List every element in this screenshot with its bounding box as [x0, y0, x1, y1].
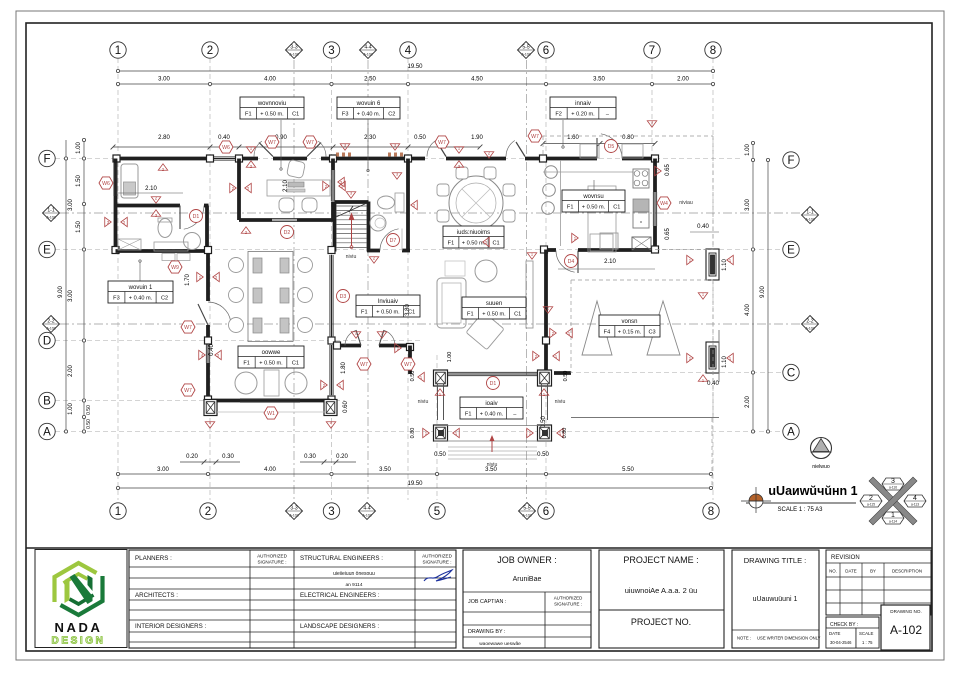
- svg-text:2.00: 2.00: [745, 396, 751, 408]
- column post: [328, 337, 335, 344]
- grid bubble F right: [783, 152, 799, 168]
- svg-text:3.50: 3.50: [379, 467, 391, 473]
- svg-text:F3: F3: [342, 112, 349, 118]
- window W1 south: [240, 398, 300, 400]
- svg-text:A-103: A-103: [289, 514, 298, 518]
- svg-text:0.30: 0.30: [304, 454, 316, 460]
- svg-text:BY: BY: [870, 569, 876, 574]
- svg-text:REVISION: REVISION: [831, 555, 860, 561]
- svg-text:W7: W7: [438, 140, 446, 146]
- bath6 south wall right: [402, 249, 410, 253]
- svg-text:uUaиwŭчŭнn 1: uUaиwŭчŭнn 1: [768, 484, 857, 498]
- svg-text:F2: F2: [555, 112, 562, 118]
- vanity below wall: [162, 254, 175, 261]
- bathtub bath1: [121, 164, 138, 198]
- grid bubble 4 top: [400, 42, 416, 58]
- marker top bath6 l: [340, 144, 350, 151]
- check by box: [826, 617, 879, 648]
- door label D1: [190, 210, 203, 223]
- svg-text:W6: W6: [102, 181, 110, 187]
- svg-text:an 9114: an 9114: [346, 582, 363, 588]
- door label D4: [565, 255, 578, 268]
- kitchen closet X: [632, 237, 651, 250]
- marker under Bcol l: [205, 422, 215, 429]
- wall dining top left: [408, 157, 425, 161]
- NADA logo emblem: [55, 563, 103, 615]
- svg-text:3.00: 3.00: [745, 199, 751, 211]
- svg-text:D1: D1: [193, 214, 200, 220]
- logo box: [35, 550, 127, 648]
- drawing title box: [732, 550, 819, 648]
- wall bath1 east: [205, 206, 209, 252]
- svg-text:2: 2: [869, 495, 873, 502]
- wall office top left: [239, 157, 258, 161]
- terrace boundary dashed: [655, 135, 713, 137]
- svg-text:4: 4: [405, 45, 412, 57]
- svg-text:2.50: 2.50: [364, 77, 376, 83]
- marker bath1 top wall: [158, 164, 168, 171]
- column post: [207, 155, 214, 162]
- svg-text:+ 0.50 m.: + 0.50 m.: [482, 312, 506, 318]
- leader lines: [280, 120, 282, 168]
- title block top line: [26, 547, 932, 549]
- hall armchairs pair: [235, 372, 257, 394]
- svg-text:4-4: 4-4: [363, 506, 370, 512]
- svg-text:3.50: 3.50: [593, 77, 605, 83]
- dimension line 19.50 top: [118, 70, 713, 72]
- wall bath6 top: [352, 157, 408, 161]
- column post: [328, 396, 335, 403]
- kitchen south wall left: [543, 248, 556, 252]
- svg-text:D: D: [43, 336, 51, 348]
- svg-text:DESIGN: DESIGN: [52, 636, 106, 647]
- keyplan flag 4: [904, 495, 926, 507]
- marker dining s: [483, 237, 490, 247]
- marker bath6 door: [369, 257, 379, 264]
- exterior wall F row bath1 top: [114, 157, 211, 161]
- section marker 4-4 top: [360, 42, 377, 59]
- svg-text:6: 6: [543, 506, 549, 518]
- column post: [205, 247, 212, 254]
- column post: [652, 155, 659, 162]
- marker bath1 2: [151, 197, 161, 204]
- window label W7 a: [265, 136, 279, 148]
- column grid8 C: [706, 342, 719, 373]
- svg-text:F3: F3: [113, 296, 120, 302]
- svg-text:A-103: A-103: [363, 53, 372, 57]
- living armchair: [475, 260, 497, 282]
- marker west pair l: [105, 217, 112, 227]
- window W6 west: [113, 163, 115, 196]
- svg-text:CHECK BY :: CHECK BY :: [830, 622, 858, 628]
- svg-text:0.50: 0.50: [414, 135, 426, 141]
- marker office sw: [241, 227, 251, 234]
- svg-text:2: 2: [205, 506, 211, 518]
- stair west wall: [333, 202, 337, 252]
- svg-text:W6: W6: [222, 145, 230, 151]
- carport marker triangle 2: [647, 301, 680, 355]
- room label office2: [238, 346, 304, 368]
- room label terrace: [460, 397, 523, 419]
- svg-text:0.20: 0.20: [186, 454, 198, 460]
- window label W7 g: [357, 358, 371, 370]
- marker top bath6 r: [390, 144, 400, 151]
- bath6 toilet: [378, 196, 395, 209]
- door label D5: [605, 140, 618, 153]
- svg-text:4-4: 4-4: [364, 45, 371, 51]
- entry porch column left: [434, 370, 448, 386]
- svg-text:DATE: DATE: [845, 569, 856, 574]
- door label D3: [337, 290, 350, 303]
- svg-text:C2: C2: [388, 112, 395, 118]
- svg-text:A-103: A-103: [289, 53, 298, 57]
- marker kitchen sw: [527, 253, 537, 260]
- section marker 1-1 left: [43, 205, 60, 222]
- north arrow symbol: [811, 438, 832, 459]
- marker walkway n: [647, 121, 657, 128]
- svg-text:5-5: 5-5: [522, 45, 529, 51]
- entry beam lines: [434, 425, 551, 427]
- marker dining top2: [484, 152, 494, 159]
- svg-text:NOTE :: NOTE :: [737, 636, 751, 641]
- svg-text:F4: F4: [604, 330, 611, 336]
- svg-text:0.40: 0.40: [697, 224, 709, 230]
- svg-text:0.30: 0.30: [222, 454, 234, 460]
- office south wall: [239, 218, 333, 222]
- stair east wall: [367, 202, 371, 252]
- upper small dims: [113, 146, 480, 148]
- svg-text:ELECTRICAL ENGINEERS :: ELECTRICAL ENGINEERS :: [300, 592, 380, 599]
- svg-text:8: 8: [710, 45, 716, 57]
- office desk: [267, 180, 330, 196]
- carport marker triangle 1: [582, 301, 612, 355]
- living south wall right: [379, 344, 413, 348]
- svg-text:5-5: 5-5: [523, 506, 530, 512]
- svg-text:uieiieiuun önesouu: uieiieiuun önesouu: [333, 571, 375, 577]
- svg-text:A-103: A-103: [522, 514, 531, 518]
- section cut lines horizontal: [60, 212, 800, 214]
- svg-text:+ 0.40 m.: + 0.40 m.: [357, 112, 381, 118]
- office chair: [287, 160, 306, 179]
- room label carport: [599, 315, 660, 337]
- kitchen island: [588, 186, 616, 252]
- svg-text:D3: D3: [340, 294, 347, 300]
- grid bubble 2 bottom: [200, 503, 216, 519]
- marker entry col l: [418, 372, 425, 382]
- column post: [652, 246, 659, 253]
- svg-text:F1: F1: [245, 112, 252, 118]
- porch column B right: [324, 400, 337, 416]
- svg-text:W7: W7: [184, 325, 192, 331]
- window label W7 c: [435, 136, 449, 148]
- svg-text:2.10: 2.10: [283, 180, 289, 192]
- living sofa: [437, 278, 466, 328]
- door leaf top 3: [437, 142, 446, 157]
- entry porch column right: [538, 370, 552, 386]
- marker living s pair: [395, 343, 402, 353]
- svg-text:1.80: 1.80: [341, 362, 347, 374]
- svg-text:oowwe: oowwe: [262, 350, 281, 356]
- svg-text:3-3: 3-3: [290, 45, 297, 51]
- window office east: [330, 170, 332, 201]
- bath6 sink: [370, 215, 386, 231]
- svg-text:iuds:niuoims: iuds:niuoims: [457, 230, 490, 236]
- marker entry col r2: [533, 351, 540, 361]
- svg-text:0.50: 0.50: [86, 419, 92, 429]
- svg-text:1.70: 1.70: [185, 274, 191, 286]
- kitchen east wall upper: [653, 159, 657, 193]
- svg-text:W7: W7: [531, 134, 539, 140]
- svg-text:+ 0.40 m.: + 0.40 m.: [480, 412, 504, 418]
- svg-text:+ 0.50 m.: + 0.50 m.: [376, 310, 400, 316]
- svg-text:AUTHORIZED: AUTHORIZED: [554, 596, 583, 601]
- marker bath6 east: [411, 200, 418, 210]
- svg-text:F1: F1: [448, 241, 455, 247]
- svg-text:1-1: 1-1: [47, 208, 54, 214]
- grid bubble B left: [39, 392, 55, 408]
- column post: [236, 155, 243, 162]
- column post: [334, 342, 341, 349]
- svg-text:0.50: 0.50: [410, 371, 416, 382]
- entry door band D1: [448, 371, 537, 373]
- laundry counters: [580, 144, 599, 158]
- svg-text:+ 0.50 m.: + 0.50 m.: [259, 361, 283, 367]
- svg-text:19.50: 19.50: [407, 481, 423, 487]
- svg-text:1: 1: [115, 45, 121, 57]
- svg-text:niviu: niviu: [418, 399, 429, 405]
- svg-text:niviu: niviu: [555, 399, 566, 405]
- grid bubble 3 top: [323, 42, 339, 58]
- svg-text:D1: D1: [490, 381, 497, 387]
- window label W7 b: [303, 136, 317, 148]
- grid bubble 6 top: [538, 42, 554, 58]
- window hall west: [205, 344, 207, 363]
- column post: [541, 246, 548, 253]
- title bullet circle: [755, 486, 757, 488]
- svg-text:A: A: [787, 427, 795, 439]
- door leaf top 2: [307, 143, 321, 157]
- svg-text:STRUCTURAL ENGINEERS :: STRUCTURAL ENGINEERS :: [300, 555, 383, 562]
- svg-text:JOB CAPTIAN :: JOB CAPTIAN :: [468, 599, 506, 605]
- svg-text:2.80: 2.80: [158, 135, 170, 141]
- kitchen sink: [633, 212, 649, 228]
- svg-text:a-115: a-115: [867, 503, 875, 507]
- svg-text:F1: F1: [243, 361, 250, 367]
- svg-text:0.65: 0.65: [665, 228, 671, 240]
- svg-text:C: C: [787, 368, 795, 380]
- office east wall lower: [331, 202, 335, 221]
- living east wall: [544, 250, 548, 375]
- svg-text:A-103: A-103: [362, 514, 371, 518]
- signature squiggle: [424, 570, 452, 581]
- marker top dining: [454, 147, 464, 154]
- svg-text:C1: C1: [292, 361, 299, 367]
- south wall B row: [211, 399, 330, 403]
- dimension line segments top: [118, 83, 713, 85]
- svg-text:8: 8: [708, 506, 714, 518]
- stair break line: [336, 203, 367, 217]
- room label bath6: [337, 97, 400, 119]
- wall bath1 mid right: [204, 204, 209, 208]
- door D7 arc: [380, 250, 402, 252]
- column post: [405, 155, 412, 162]
- svg-text:1.10: 1.10: [722, 356, 728, 368]
- svg-text:4.00: 4.00: [264, 467, 276, 473]
- window W4 east: [652, 192, 654, 226]
- svg-text:ARCHITECTS :: ARCHITECTS :: [135, 592, 178, 599]
- svg-text:vonsn: vonsn: [621, 319, 637, 325]
- svg-text:LANDSCAPE DESIGNERS :: LANDSCAPE DESIGNERS :: [300, 623, 379, 630]
- section marker 2-2 left: [43, 316, 60, 333]
- grid bubble 7 top: [644, 42, 660, 58]
- door label D1 entry: [487, 377, 500, 390]
- svg-text:3.80: 3.80: [405, 304, 411, 316]
- svg-text:PROJECT NO.: PROJECT NO.: [631, 617, 691, 627]
- svg-text:W4: W4: [660, 201, 668, 207]
- svg-text:A-103: A-103: [46, 216, 55, 220]
- svg-text:3.00: 3.00: [157, 467, 169, 473]
- svg-text:F1: F1: [361, 310, 368, 316]
- hall west wall lower: [206, 363, 210, 401]
- svg-text:W7: W7: [184, 388, 192, 394]
- svg-text:suuen: suuen: [486, 301, 502, 307]
- entry step column right: [538, 425, 552, 441]
- living tv cabinet: [526, 261, 533, 328]
- svg-text:2-2: 2-2: [47, 319, 54, 325]
- marker office west pair: [230, 183, 237, 193]
- marker office east win: [338, 177, 345, 187]
- svg-text:C1: C1: [514, 312, 521, 318]
- svg-text:wovnnoviu: wovnnoviu: [257, 101, 286, 107]
- sink round bath1: [184, 233, 201, 250]
- svg-text:F: F: [787, 155, 794, 167]
- section marker 5-5 bottom: [519, 503, 536, 520]
- svg-text:5.50: 5.50: [622, 467, 634, 473]
- svg-text:niviau: niviau: [679, 200, 693, 206]
- grid bubble D left: [39, 332, 55, 348]
- kitchen stools: [545, 166, 558, 179]
- window label W6 top: [219, 141, 233, 153]
- window hall east 1.80: [329, 345, 331, 395]
- porch slab edge: [217, 411, 325, 413]
- entry arrow: [491, 436, 493, 452]
- door D2 sliding band: [272, 219, 297, 221]
- svg-text:0.50: 0.50: [563, 371, 569, 382]
- svg-text:2-2: 2-2: [806, 319, 813, 325]
- svg-text:2: 2: [207, 45, 213, 57]
- wall dining top mid: [446, 157, 506, 161]
- column post: [543, 337, 550, 344]
- dining table: [449, 176, 503, 230]
- toilet bath1: [158, 219, 172, 238]
- svg-text:0.50: 0.50: [86, 405, 92, 415]
- svg-text:NADA: NADA: [55, 620, 103, 635]
- kitchen stool counter band: [560, 160, 562, 246]
- svg-text:waoewawe ueswãe: waoewawe ueswãe: [479, 641, 521, 647]
- svg-text:1.10: 1.10: [722, 259, 728, 271]
- column post: [540, 155, 547, 162]
- svg-text:A: A: [43, 427, 51, 439]
- hall chairs: [229, 258, 313, 333]
- svg-text:a-114: a-114: [889, 520, 897, 524]
- svg-text:+ 0.50 m.: + 0.50 m.: [260, 112, 284, 118]
- svg-text:0.20: 0.20: [336, 454, 348, 460]
- hall west wall mid: [206, 325, 210, 344]
- left dim lines: [65, 140, 67, 432]
- vanity counter bath1: [154, 242, 188, 251]
- svg-text:PROJECT NAME :: PROJECT NAME :: [623, 555, 698, 565]
- svg-text:D5: D5: [608, 144, 615, 150]
- svg-text:4.50: 4.50: [471, 77, 483, 83]
- svg-text:2.10: 2.10: [604, 259, 616, 265]
- svg-text:3.00: 3.00: [68, 199, 74, 211]
- kitchen east wall lower: [653, 226, 657, 250]
- svg-text:wovnsu: wovnsu: [582, 194, 603, 200]
- keyplan X bars: [860, 477, 926, 525]
- marker step col r: [527, 428, 534, 438]
- grid bubble 1 top: [110, 42, 126, 58]
- room label laundry: [550, 97, 616, 119]
- marker hall east low: [321, 380, 328, 390]
- svg-text:wovuin 6: wovuin 6: [356, 101, 381, 107]
- wall office top mid: [273, 157, 307, 161]
- door arc hall west: [208, 302, 231, 321]
- marker col8 C s: [698, 375, 708, 382]
- grid bubble 6 bottom: [538, 503, 554, 519]
- marker living e: [550, 328, 557, 338]
- svg-text:0.65: 0.65: [665, 164, 671, 176]
- svg-text:3: 3: [328, 45, 334, 57]
- door D1 arc bath: [179, 206, 181, 230]
- svg-text:1.50: 1.50: [76, 175, 82, 187]
- svg-text:SIGNATURE :: SIGNATURE :: [554, 602, 582, 607]
- door leaf living south 2: [379, 330, 384, 346]
- grid bubble E left: [39, 241, 55, 257]
- job owner box: [463, 550, 591, 648]
- scale box: [856, 628, 879, 648]
- svg-text:1: 1: [891, 512, 895, 519]
- exterior wall west upper: [114, 159, 118, 205]
- wall dining top right: [525, 157, 545, 161]
- section cut lines vertical: [293, 60, 295, 502]
- svg-text:DATE: DATE: [829, 631, 840, 636]
- svg-text:0.50: 0.50: [434, 452, 446, 458]
- svg-text:a-116: a-116: [889, 486, 897, 490]
- svg-text:JOB OWNER :: JOB OWNER :: [497, 555, 557, 565]
- grid bubble 1 bottom: [110, 503, 126, 519]
- svg-text:W7: W7: [268, 140, 276, 146]
- svg-text:3: 3: [891, 478, 895, 485]
- stair treads: [336, 206, 367, 247]
- column post: [113, 155, 120, 162]
- svg-text:D7: D7: [390, 238, 397, 244]
- wall top grid3: [321, 157, 352, 161]
- marker under col l: [435, 389, 445, 396]
- svg-text:E: E: [43, 245, 51, 257]
- room label kitchen: [562, 190, 625, 212]
- wall grid4 bath6 east: [406, 159, 410, 250]
- masonry hatch marks: [336, 153, 403, 157]
- svg-text:INTERIOR DESIGNERS :: INTERIOR DESIGNERS :: [135, 623, 206, 630]
- svg-text:4: 4: [913, 495, 917, 502]
- svg-text:DRAWING NO.: DRAWING NO.: [890, 609, 921, 614]
- stair arrow: [351, 214, 353, 246]
- grid lines vertical: [117, 58, 119, 500]
- svg-text:4.00: 4.00: [745, 304, 751, 316]
- svg-text:1.00: 1.00: [76, 142, 82, 154]
- room label dining: [443, 226, 504, 248]
- svg-text:2.30: 2.30: [364, 135, 376, 141]
